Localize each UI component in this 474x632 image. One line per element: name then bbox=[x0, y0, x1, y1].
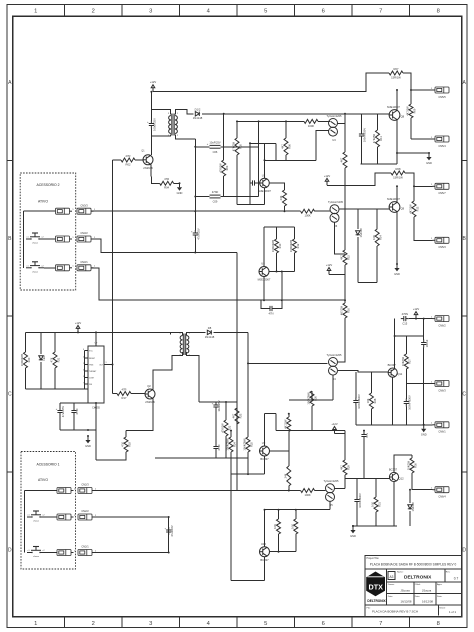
connector CN6/2 bbox=[431, 316, 449, 328]
resistor R02 27R bbox=[121, 154, 135, 167]
wire QC1 down long bbox=[230, 452, 232, 581]
wire cap string stage3 bbox=[355, 372, 357, 398]
svg-text:47R: 47R bbox=[164, 177, 169, 181]
wire rail y474 bbox=[231, 473, 265, 475]
svg-text:7: 7 bbox=[379, 621, 382, 627]
wire thyC bottom pin bbox=[332, 375, 334, 400]
svg-text:Tyristor/1205: Tyristor/1205 bbox=[327, 353, 343, 357]
wire res D1 top bbox=[311, 391, 313, 400]
resistor 100K/3W6 C1 bbox=[226, 437, 237, 452]
wire C07 bottom bbox=[194, 238, 196, 253]
wire CN2/1 route bbox=[92, 552, 169, 554]
node J20b bbox=[288, 490, 290, 492]
svg-text:2: 2 bbox=[92, 8, 95, 14]
diode D11 1N4148 bbox=[408, 502, 415, 512]
wire res bottom2 bbox=[370, 409, 372, 425]
wire collector Q09 bbox=[396, 186, 398, 202]
capacitor C07 47uF/25V bbox=[191, 228, 200, 240]
wire D11 bottom bbox=[409, 511, 411, 526]
svg-text:GND: GND bbox=[177, 191, 183, 195]
wire diode to x248 bbox=[214, 331, 248, 333]
capacitor C19 47NF bbox=[213, 444, 221, 452]
thyristor U5 pair bbox=[324, 479, 340, 507]
svg-text:DTX: DTX bbox=[369, 583, 384, 592]
wire rail y332 left segment bbox=[26, 331, 79, 333]
wire res QD stub b bbox=[295, 510, 297, 519]
wire res to rail bbox=[376, 246, 378, 283]
svg-text:1: 1 bbox=[34, 621, 37, 627]
resistor 10K stage4 bbox=[371, 497, 382, 512]
svg-text:100NF: 100NF bbox=[425, 339, 429, 347]
svg-text:RESET: RESET bbox=[89, 358, 96, 360]
svg-text:ATIVO: ATIVO bbox=[38, 200, 48, 204]
connector acc1 pin1 bbox=[57, 550, 76, 556]
wire Q11 emitter bbox=[392, 377, 394, 425]
wire res bottom to CN6/3 rail bbox=[405, 369, 407, 384]
svg-text:4K7: 4K7 bbox=[340, 157, 344, 162]
wire C17 bottom bbox=[59, 416, 61, 431]
wire res string stage2 bbox=[376, 209, 378, 229]
wire bus x345 mid bbox=[344, 265, 346, 300]
wire res to thyD bbox=[315, 490, 326, 492]
title block grid lines bbox=[365, 569, 462, 615]
svg-text:R15: R15 bbox=[346, 255, 350, 260]
svg-text:CN5/7: CN5/7 bbox=[438, 191, 446, 195]
node J12 bbox=[194, 252, 196, 254]
resistor 4K7 bottom bbox=[340, 460, 351, 475]
svg-text:4K7/1W: 4K7/1W bbox=[409, 204, 413, 214]
diode D8 1N4148 bbox=[205, 326, 215, 339]
switch acc2 chave2 bbox=[26, 262, 44, 274]
wire diode string stage2 bbox=[357, 209, 359, 229]
wire C18 bottom bbox=[73, 416, 75, 431]
wire x286 to rail 160 bbox=[285, 155, 287, 160]
label ACESSORIO 2 bbox=[37, 183, 60, 187]
svg-text:16/12/08: 16/12/08 bbox=[422, 600, 433, 604]
wire +12V rail top bbox=[153, 73, 389, 92]
resistor 10K stage2 bbox=[372, 229, 383, 246]
wire long vertical IC out bus bbox=[112, 160, 114, 394]
svg-text:3: 3 bbox=[149, 8, 152, 14]
wire T1 bottom to Q01 collector bbox=[150, 136, 152, 155]
wire Q13 emitter bbox=[264, 557, 266, 581]
wire IC output bus to R02 bbox=[113, 159, 122, 161]
wire res stub bbox=[125, 431, 127, 437]
wire rail y146 right bbox=[221, 146, 259, 148]
wire res to CN5/3 bbox=[414, 217, 433, 240]
wire res QC dn bottom bbox=[288, 486, 290, 491]
svg-text:10K: 10K bbox=[366, 398, 370, 403]
capacitor C09 47nF bbox=[210, 190, 221, 204]
resistor 47K/2W stage1 bbox=[372, 130, 383, 147]
svg-text:R24: R24 bbox=[232, 442, 236, 447]
node J2 bbox=[396, 89, 398, 91]
wire R17 to base bbox=[131, 393, 145, 395]
wire diode to rail bbox=[357, 237, 359, 283]
svg-text:Tyristor/1205: Tyristor/1205 bbox=[328, 200, 344, 204]
switch acc1 chave2 bbox=[27, 547, 45, 559]
svg-text:R10: R10 bbox=[278, 243, 282, 248]
resistor 10K QD b bbox=[290, 519, 297, 534]
svg-text:100uF/25V: 100uF/25V bbox=[153, 118, 157, 131]
wire left bank res bottom bbox=[25, 368, 27, 389]
svg-text:R25: R25 bbox=[249, 442, 253, 447]
svg-text:Appr:: Appr: bbox=[437, 583, 443, 586]
svg-text:1N4148: 1N4148 bbox=[411, 502, 415, 512]
svg-text:10uF/25V: 10uF/25V bbox=[209, 140, 221, 144]
svg-text:GND: GND bbox=[394, 272, 400, 276]
wire drive to res bbox=[237, 490, 301, 492]
wire res QC1 bbox=[230, 431, 232, 437]
svg-text:47K/1W: 47K/1W bbox=[218, 163, 222, 173]
wire res B2 bottom bbox=[293, 253, 295, 272]
wire res string x237b bbox=[236, 402, 238, 408]
wire stage3 supply bbox=[394, 319, 396, 368]
svg-text:47NF: 47NF bbox=[217, 444, 221, 451]
svg-text:8: 8 bbox=[83, 349, 84, 351]
wire rail y196 right bbox=[221, 196, 259, 198]
resistor 100K stage A bbox=[304, 119, 318, 127]
svg-text:Drawn:: Drawn: bbox=[388, 583, 395, 586]
wire C08 box left bbox=[261, 300, 267, 308]
svg-text:100nF/630V: 100nF/630V bbox=[363, 128, 367, 142]
wire thyA gate wire bbox=[316, 131, 329, 161]
wire caps rail bbox=[60, 402, 96, 404]
wire QC base right bbox=[270, 450, 289, 452]
capacitor C06 10uF/25V bbox=[207, 140, 221, 154]
wire base rail stage4 bbox=[345, 477, 389, 479]
node J35b bbox=[278, 551, 280, 553]
svg-text:100K/3W6: 100K/3W6 bbox=[289, 239, 293, 252]
wire res B1 top stub bbox=[276, 227, 278, 239]
svg-text:R09: R09 bbox=[412, 108, 416, 113]
wire res 10K1W stage3 bbox=[405, 336, 407, 354]
wire base rail stage3 bbox=[338, 371, 388, 372]
svg-text:DELTRONIX: DELTRONIX bbox=[367, 599, 386, 603]
node J27 bbox=[423, 424, 425, 426]
wire IC VCC stub bbox=[95, 332, 97, 346]
resistor R18 47K bbox=[121, 437, 132, 452]
node J4 bbox=[194, 146, 196, 148]
resistor 100K/3W6 B1 bbox=[271, 239, 282, 253]
ground stage3 bbox=[421, 424, 427, 437]
wire acc2 branch3 bbox=[44, 267, 56, 269]
wire rail y226 bbox=[264, 226, 294, 228]
svg-text:5: 5 bbox=[264, 621, 267, 627]
svg-text:BC337: BC337 bbox=[389, 468, 398, 472]
wire Q12 emitter bbox=[393, 482, 395, 526]
wire x237 down to rail 204 bbox=[236, 155, 238, 204]
svg-text:c2: c2 bbox=[43, 550, 45, 552]
svg-text:15R/1W: 15R/1W bbox=[391, 75, 401, 79]
label ATIVO 1 bbox=[38, 478, 48, 482]
svg-text:47K/1W: 47K/1W bbox=[221, 423, 225, 433]
wire R07 to CN5/5 junction bbox=[403, 73, 433, 90]
wire rail y146 left bbox=[195, 146, 209, 148]
wire stub res 47K/2W bbox=[377, 114, 379, 130]
wire Q13 collector bbox=[264, 510, 266, 547]
connector acc2 pin2 bbox=[56, 236, 75, 242]
wire res bottom bbox=[54, 368, 56, 389]
wire R02 to base bbox=[135, 159, 143, 161]
wire QB emitter bbox=[263, 277, 265, 301]
svg-text:R13: R13 bbox=[415, 206, 419, 211]
node J9 bbox=[413, 185, 415, 187]
wire T1 bottom-right lead bbox=[175, 135, 195, 140]
svg-text:C: C bbox=[8, 392, 12, 398]
svg-text:10K: 10K bbox=[273, 524, 277, 529]
svg-text:PLACA DA BOBINA REV B 7.SCH: PLACA DA BOBINA REV B 7.SCH bbox=[372, 610, 418, 614]
svg-text:DELTRONIX: DELTRONIX bbox=[404, 575, 432, 581]
svg-text:Q2: Q2 bbox=[147, 384, 151, 388]
wire resB to thyristor B bbox=[315, 210, 330, 212]
ground oscillator 1 bbox=[177, 182, 183, 195]
svg-text:47uF/16V: 47uF/16V bbox=[170, 525, 174, 537]
wire left branch down to cap C05 bbox=[150, 110, 152, 122]
svg-text:47R: 47R bbox=[122, 387, 127, 391]
wire stage2 bottom rail bbox=[358, 282, 377, 284]
node J10 bbox=[276, 271, 278, 273]
node J33 bbox=[168, 516, 170, 518]
wire T2 top-left lead bbox=[171, 332, 183, 335]
wire x226 down bbox=[225, 436, 227, 458]
capacitor C14 47N bbox=[361, 432, 369, 440]
svg-text:16/12/08: 16/12/08 bbox=[401, 600, 412, 604]
wire +12V to R08 bbox=[327, 173, 391, 185]
wire acc2 branch2 bbox=[44, 238, 56, 240]
svg-text:CN5/5: CN5/5 bbox=[438, 95, 446, 99]
node J38 bbox=[284, 210, 286, 212]
wire C24 bottom bbox=[356, 505, 358, 527]
wire R04 to ground bbox=[174, 182, 180, 184]
resistor 4K7/1W stage1 bbox=[406, 104, 417, 118]
svg-text:7: 7 bbox=[379, 8, 382, 14]
svg-text:100K/3W6: 100K/3W6 bbox=[20, 353, 24, 366]
svg-text:c2: c2 bbox=[43, 515, 45, 517]
node J18 bbox=[87, 429, 89, 431]
wire bank bottom rail bbox=[26, 388, 89, 390]
svg-text:2N2646: 2N2646 bbox=[145, 400, 155, 404]
svg-text:CN3/1: CN3/1 bbox=[80, 260, 88, 264]
wire Q12 collector bbox=[394, 455, 412, 472]
svg-text:c1: c1 bbox=[28, 550, 30, 552]
wire D11 top bbox=[409, 490, 411, 503]
resistor 4K7 bus top bbox=[340, 152, 347, 168]
wire diode rail to Q08 base bbox=[202, 113, 390, 115]
svg-text:MJE13007: MJE13007 bbox=[387, 197, 400, 201]
resistor 4K7 mid bbox=[340, 250, 351, 265]
capacitor C11 47N bbox=[250, 180, 258, 185]
svg-text:R07: R07 bbox=[394, 67, 399, 71]
svg-text:TRIG: TRIG bbox=[89, 365, 94, 367]
wire res stub4 bbox=[411, 455, 413, 458]
wire bus x345 upper bbox=[344, 168, 346, 250]
label ACESSORIO 1 bbox=[37, 463, 60, 467]
power +12V stage2 bbox=[324, 174, 331, 186]
svg-text:R27: R27 bbox=[408, 359, 412, 364]
svg-text:Q12: Q12 bbox=[399, 477, 405, 481]
node J13 bbox=[344, 299, 346, 301]
wire QA base res bottom bbox=[284, 206, 286, 211]
svg-text:R31: R31 bbox=[377, 502, 381, 507]
svg-text:4K7: 4K7 bbox=[340, 255, 344, 260]
wire stage1 bottom rail bbox=[361, 163, 398, 165]
wire IC bottom stub bbox=[95, 403, 97, 460]
svg-text:c1: c1 bbox=[28, 515, 30, 517]
svg-text:100NF/630V: 100NF/630V bbox=[357, 394, 361, 409]
svg-text:U9: U9 bbox=[262, 441, 266, 445]
connector CN6/1 bbox=[431, 422, 449, 434]
wire cap string stage4 bbox=[356, 478, 358, 497]
wire CN2/3 drive line bbox=[92, 490, 237, 492]
svg-text:U8: U8 bbox=[261, 262, 265, 266]
capacitor C13 10uF/25V bbox=[212, 400, 221, 412]
svg-text:4K7: 4K7 bbox=[340, 465, 344, 470]
svg-text:6: 6 bbox=[322, 8, 325, 14]
resistor 4K7/1W stage2 bbox=[409, 201, 420, 217]
wire QB base right bbox=[269, 271, 294, 273]
wire res B1 bottom bbox=[276, 253, 278, 272]
wire C14 bottom bbox=[363, 440, 365, 479]
svg-text:R11: R11 bbox=[379, 136, 383, 141]
svg-text:CN3/2: CN3/2 bbox=[80, 231, 88, 235]
node J14 bbox=[112, 364, 114, 366]
svg-text:100K: 100K bbox=[304, 493, 310, 497]
wire rail y402 ext bbox=[216, 401, 237, 403]
wire Q09 emitter bbox=[396, 212, 398, 264]
svg-text:File:: File: bbox=[367, 608, 372, 610]
wire x223 down bbox=[223, 176, 225, 197]
svg-text:100K/3W6: 100K/3W6 bbox=[226, 438, 230, 451]
wire CN6/3 rail bbox=[406, 383, 432, 385]
wire T1 bottom-left lead bbox=[151, 135, 170, 137]
svg-text:5: 5 bbox=[264, 8, 267, 14]
svg-text:chave: chave bbox=[32, 271, 39, 273]
svg-text:D: D bbox=[462, 547, 466, 553]
wire T1 top-left lead bbox=[151, 110, 170, 115]
capacitor C15 470N bbox=[401, 312, 409, 325]
svg-text:THRSHT: THRSHT bbox=[89, 371, 97, 373]
node J26 bbox=[394, 335, 396, 337]
wire QB collector bbox=[263, 227, 265, 267]
power +12V P3 bbox=[75, 321, 82, 333]
wire thyC top pin bbox=[338, 361, 345, 363]
wire cap string stage3 bbox=[405, 384, 407, 400]
node J15 bbox=[95, 331, 97, 333]
svg-text:100NF/630V: 100NF/630V bbox=[358, 493, 362, 508]
svg-text:U2: U2 bbox=[262, 173, 266, 177]
wire res string x237 bbox=[236, 121, 238, 138]
wire C15 right bbox=[409, 318, 433, 320]
svg-text:R14: R14 bbox=[379, 235, 383, 240]
svg-text:4K7: 4K7 bbox=[281, 144, 285, 149]
svg-text:Date:: Date: bbox=[437, 595, 443, 598]
wire rail y413 drop bbox=[275, 414, 277, 431]
wire CN3/2 route bbox=[91, 239, 237, 253]
node J6 bbox=[285, 120, 287, 122]
svg-text:CN5/3: CN5/3 bbox=[438, 245, 446, 249]
connector acc1 pin3 bbox=[57, 488, 76, 494]
wire +12V stub bbox=[329, 274, 345, 276]
svg-text:0.7: 0.7 bbox=[454, 577, 459, 581]
wire C23 bottom bbox=[405, 407, 407, 425]
wire led string bbox=[40, 332, 42, 354]
svg-text:Date:: Date: bbox=[415, 595, 421, 598]
resistor 4K7 A bbox=[281, 138, 292, 155]
connector CN2/1 bbox=[78, 545, 97, 556]
wire bus to R17 bbox=[113, 393, 118, 395]
wire rail to T2 top-left bbox=[170, 332, 172, 334]
svg-text:GND: GND bbox=[426, 161, 432, 165]
node J21 bbox=[230, 430, 232, 432]
resistor 24K QC bbox=[283, 466, 290, 486]
svg-text:3: 3 bbox=[149, 621, 152, 627]
wire base stub cap C10 bbox=[361, 114, 363, 131]
svg-text:+12V: +12V bbox=[331, 422, 338, 426]
resistor 100K stage D bbox=[301, 489, 315, 497]
resistor 47K/1W C bbox=[221, 420, 232, 436]
connector CN2/3 bbox=[78, 483, 97, 494]
ground stage1 bbox=[426, 152, 432, 165]
wire cap to QA base bbox=[258, 182, 260, 184]
svg-text:24K: 24K bbox=[283, 473, 287, 478]
svg-text:LED: LED bbox=[42, 355, 46, 360]
svg-text:27R: 27R bbox=[126, 154, 131, 158]
capacitor C08 47N bbox=[267, 306, 275, 315]
svg-text:c1: c1 bbox=[27, 237, 29, 239]
wire x248 bus tail bbox=[247, 452, 249, 474]
svg-text:47uF/25V: 47uF/25V bbox=[61, 406, 65, 418]
ground IC section bbox=[85, 435, 91, 448]
switch acc2 chave1 bbox=[26, 233, 44, 245]
wire rail y413 bbox=[265, 413, 277, 415]
transistor Q02 2N2646 bbox=[145, 384, 155, 404]
DELTRONIX logo bbox=[366, 572, 386, 603]
connector CN6/3 bbox=[431, 381, 449, 393]
capacitor C22 100NF bbox=[421, 339, 429, 347]
svg-text:Chkd:: Chkd: bbox=[415, 584, 421, 586]
wire C10 to bottom rail bbox=[361, 139, 363, 164]
wire x237b down bbox=[236, 424, 238, 458]
transistor QA MJE13007 bbox=[258, 173, 271, 193]
wire rail y336 bbox=[395, 335, 424, 337]
node J19 bbox=[225, 401, 227, 403]
node J7 bbox=[249, 142, 251, 144]
diode D6 1N4148 bbox=[356, 228, 363, 238]
wire 4K7 CN5/3 string bbox=[413, 186, 415, 201]
svg-text:47K: 47K bbox=[121, 442, 125, 447]
svg-text:1: 1 bbox=[34, 8, 37, 14]
svg-text:C: C bbox=[462, 392, 466, 398]
node J41 bbox=[223, 113, 225, 115]
wire bank rail to IC pins bbox=[84, 351, 86, 390]
svg-text:C15: C15 bbox=[402, 321, 407, 325]
transistor Q11 BC337 bbox=[388, 363, 403, 377]
svg-text:10K: 10K bbox=[371, 502, 375, 507]
svg-text:R29: R29 bbox=[346, 465, 350, 470]
svg-text:8: 8 bbox=[437, 8, 440, 14]
svg-text:D8: D8 bbox=[208, 326, 212, 330]
svg-text:chave: chave bbox=[32, 243, 39, 245]
title block texts bbox=[367, 557, 459, 614]
wire T2 bottom-left lead bbox=[153, 352, 182, 389]
svg-text:10K: 10K bbox=[372, 235, 376, 240]
svg-text:CN6/2: CN6/2 bbox=[438, 323, 446, 327]
svg-text:470N: 470N bbox=[402, 312, 408, 316]
wire rail y160 bbox=[265, 159, 317, 161]
svg-text:R17: R17 bbox=[122, 396, 127, 400]
wire stage3 bottom rail bbox=[356, 424, 433, 426]
